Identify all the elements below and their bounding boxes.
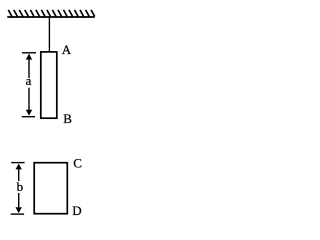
- svg-text:A: A: [62, 42, 72, 57]
- svg-text:b: b: [17, 179, 24, 194]
- svg-text:a: a: [26, 73, 32, 88]
- svg-text:C: C: [73, 155, 82, 170]
- svg-text:B: B: [63, 111, 72, 126]
- svg-text:D: D: [72, 203, 81, 218]
